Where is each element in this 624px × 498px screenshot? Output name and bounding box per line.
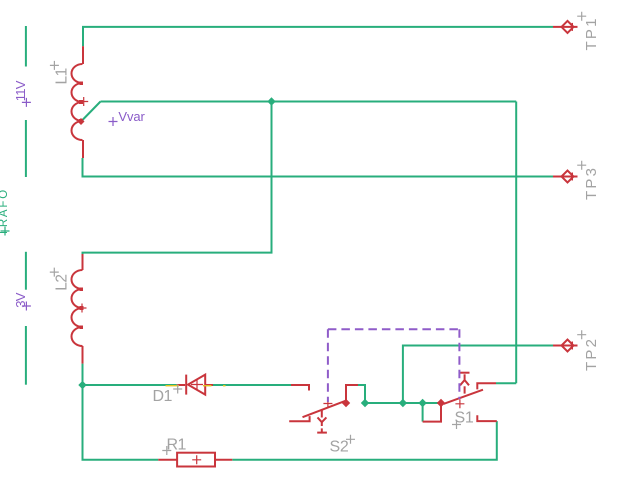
label D1 origin cross	[173, 385, 182, 394]
node junction S1 square	[418, 399, 426, 407]
R1 symbol origin cross	[192, 455, 201, 464]
svg-text:TP3: TP3	[583, 166, 600, 200]
L1 arc joint nubs	[79, 82, 83, 124]
11V origin cross	[22, 98, 31, 107]
resistor R1	[158, 453, 232, 467]
L1 tap junction dot	[78, 118, 85, 125]
switch S1 arm	[444, 390, 484, 404]
wire S1 bridge green part	[422, 403, 424, 422]
switch S2 arm	[303, 400, 347, 417]
switch S2 pole lead	[291, 385, 309, 391]
switch S2 unconnected throw lead	[289, 416, 309, 421]
label L1 origin cross	[50, 61, 59, 70]
label S1 origin cross	[452, 420, 461, 429]
wire node down to R1 left	[83, 385, 159, 460]
inductor L1	[72, 46, 84, 158]
S1 contact junction dot red	[437, 399, 445, 407]
bracket segment 3V winding lower	[25, 326, 27, 385]
wire L1 pin2 to TP3	[83, 158, 554, 177]
switch S2 actuator	[317, 410, 327, 433]
L2 arc joint nubs	[80, 288, 84, 330]
label TP1 origin cross	[577, 12, 586, 21]
svg-text:L1: L1	[54, 68, 71, 84]
test point TP2	[553, 340, 578, 352]
svg-text:L2: L2	[54, 274, 71, 290]
S2 symbol origin cross	[323, 399, 332, 408]
svg-text:Vvar: Vvar	[118, 109, 145, 124]
label TP2 origin cross	[577, 330, 586, 339]
wire right vertical down to S1 upper throw	[515, 102, 517, 384]
wire Vvar tap diagonal from L1 center tap	[81, 102, 101, 122]
TP1 pin origin cross	[571, 23, 573, 31]
dashed group rectangle	[328, 329, 460, 402]
D1 symbol origin cross	[191, 380, 203, 390]
svg-text:D1: D1	[153, 388, 173, 405]
bracket segment 11V winding lower	[25, 120, 27, 177]
svg-text:S1: S1	[455, 409, 474, 426]
label S2 origin cross	[346, 435, 355, 444]
TRAFO origin cross	[1, 227, 10, 236]
inductor L2	[72, 254, 83, 364]
switch S2 bridge red part	[346, 385, 358, 403]
svg-text:S2: S2	[330, 439, 349, 456]
label L2 origin cross	[50, 268, 59, 277]
node junction TP2 branch	[399, 399, 407, 407]
switch S1 lower throw lead	[477, 415, 497, 421]
switch S1 upper throw lead	[477, 383, 496, 389]
L2 symbol origin cross	[78, 304, 87, 313]
wire drop from node at x=271 down and left to L2 pin1	[83, 102, 272, 255]
wire Vvar horizontal run to right vertical	[101, 101, 517, 103]
3V origin cross	[22, 302, 31, 311]
test point TP1	[553, 21, 578, 33]
wire S2 bridge green part	[358, 385, 365, 403]
svg-text:TP1: TP1	[583, 16, 600, 50]
switch S1 actuator	[460, 373, 470, 394]
node junction at L2 bottom	[78, 381, 86, 389]
switch S1 bridge red part	[423, 403, 441, 422]
wire common row between S2 and S1	[365, 402, 441, 404]
diode D1	[177, 375, 213, 395]
S2 wire junction dot green	[361, 399, 369, 407]
bracket segment 11V winding upper	[25, 26, 27, 67]
S2 contact junction dot red	[342, 399, 350, 407]
wire S1 upper throw link	[496, 382, 516, 384]
TP2 pin origin cross	[571, 342, 573, 350]
bracket segment 3V winding upper	[25, 252, 27, 290]
TP3 pin origin cross	[571, 173, 573, 181]
wire node to D1 anode	[83, 384, 177, 386]
wire TP2 branch	[403, 346, 553, 404]
node junction at Vvar line	[267, 97, 275, 105]
label TP3 origin cross	[577, 161, 586, 170]
test point TP3	[553, 171, 578, 183]
D1 pin overlap marks yellow	[166, 385, 226, 387]
wire D1 cathode to S2 pole	[213, 384, 291, 386]
wire L2 pin2 down to node	[82, 364, 84, 385]
wire top net from L1 pin1 to TP1	[83, 27, 553, 46]
svg-text:TP2: TP2	[583, 337, 600, 371]
L1 symbol origin cross	[79, 97, 88, 106]
Vvar origin cross	[109, 117, 118, 126]
S1 symbol origin cross	[455, 399, 464, 408]
wire R1 right to S1 lower throw	[232, 421, 497, 460]
label R1 origin cross	[162, 446, 171, 455]
